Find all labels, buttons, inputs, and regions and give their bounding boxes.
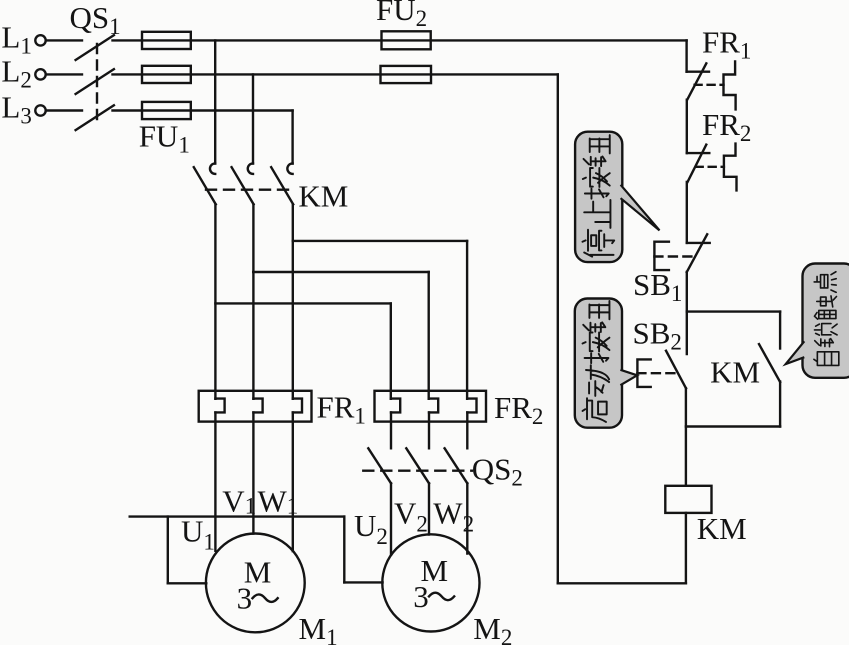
svg-text:KM: KM — [298, 178, 348, 213]
svg-text:3: 3 — [413, 579, 429, 614]
svg-text:3: 3 — [237, 581, 253, 616]
svg-text:KM: KM — [697, 511, 747, 546]
svg-text:KM: KM — [710, 355, 760, 390]
